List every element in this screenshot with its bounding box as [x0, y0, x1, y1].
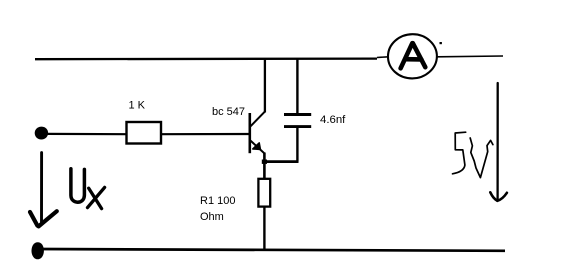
node: top input terminal	[35, 127, 48, 140]
wire: node to 1K resistor	[47, 133, 126, 136]
Ux source arrow	[30, 153, 57, 227]
wire: junction down to R1	[263, 162, 266, 179]
wire: emitter junction to capacitor bottom	[264, 160, 299, 163]
transistor Q1 bc547	[250, 111, 265, 153]
wire: top rail right of ammeter	[438, 55, 504, 58]
svg-text:R1 100: R1 100	[200, 195, 235, 207]
resistor 1K	[127, 122, 162, 144]
svg-text:bc 547: bc 547	[212, 106, 245, 118]
wire: bottom rail	[37, 249, 505, 251]
wire: emitter down to junction	[263, 153, 266, 164]
wire: R1 to bottom rail	[263, 207, 265, 250]
wire: collector to top rail	[264, 59, 266, 113]
svg-text:1 K: 1 K	[129, 100, 146, 112]
ammeter M1	[388, 34, 437, 78]
5V supply arrow	[490, 83, 507, 201]
resistor R1	[258, 179, 270, 207]
wire: top rail left segment	[35, 57, 389, 59]
label Ux (handwritten)	[71, 169, 105, 209]
svg-text:4.6nf: 4.6nf	[320, 114, 346, 126]
label 5V (handwritten)	[453, 132, 493, 177]
node: bottom input terminal	[32, 242, 44, 259]
junction node	[262, 160, 267, 164]
capacitor C1	[284, 59, 311, 162]
wire: 1K to transistor base	[162, 133, 249, 135]
svg-text:Ohm: Ohm	[200, 211, 224, 223]
stray speck	[440, 42, 442, 44]
